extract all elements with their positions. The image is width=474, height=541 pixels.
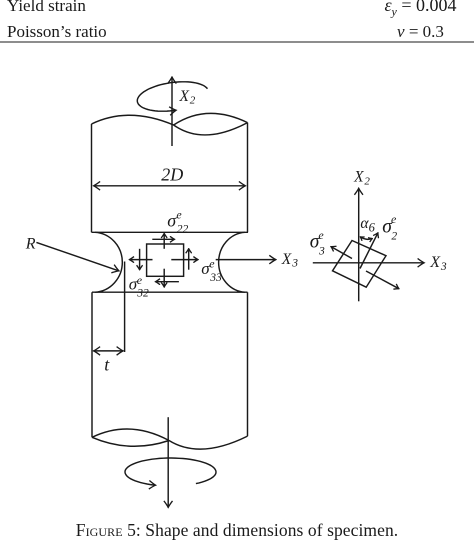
svg-text:2: 2 bbox=[364, 175, 370, 187]
R leader arrow bbox=[36, 242, 119, 271]
top break wave main bbox=[92, 115, 248, 135]
svg-text:2: 2 bbox=[391, 230, 397, 242]
table row 2 value bbox=[345, 22, 474, 42]
svg-text:e: e bbox=[176, 207, 182, 221]
svg-text:X: X bbox=[281, 251, 292, 268]
bottom break wave main bbox=[92, 429, 248, 449]
torsion loop bottom bbox=[125, 458, 216, 485]
svg-text:X: X bbox=[179, 88, 190, 105]
sigma3 principal arrow bbox=[331, 247, 352, 259]
notch arc left bbox=[95, 232, 122, 292]
X3 axis main bbox=[216, 259, 276, 261]
upper cylinder right edge bbox=[247, 123, 249, 233]
inset rotated square bbox=[333, 241, 387, 288]
svg-text:33: 33 bbox=[209, 272, 222, 284]
right shear arrow up bbox=[188, 249, 190, 270]
svg-text:e: e bbox=[391, 212, 397, 226]
svg-text:2: 2 bbox=[190, 95, 196, 107]
t dimension arrow bbox=[94, 350, 124, 352]
sigma33 right arrow bbox=[171, 259, 198, 261]
table bottom rule bbox=[0, 41, 474, 43]
X2 axis arrow (top) bbox=[171, 77, 173, 146]
table row 1 value bbox=[345, 0, 474, 20]
upper cylinder left edge bbox=[91, 124, 93, 232]
svg-text:3: 3 bbox=[318, 245, 325, 257]
top shear arrow right bbox=[152, 238, 174, 240]
alpha6 angle arc bbox=[360, 237, 372, 239]
stress element square bbox=[147, 244, 184, 276]
sigma2 principal arrow bbox=[360, 233, 378, 269]
upper shoulder line bbox=[92, 231, 249, 233]
sigma22 up arrow bbox=[163, 233, 165, 248]
svg-text:t: t bbox=[104, 355, 110, 375]
left shear arrow down bbox=[139, 249, 141, 270]
lower cylinder right edge bbox=[247, 292, 249, 436]
left arrow out bbox=[129, 259, 152, 261]
svg-text:3: 3 bbox=[440, 261, 447, 273]
bottom shear arrow left bbox=[155, 281, 179, 283]
svg-text:R: R bbox=[25, 236, 36, 253]
2D dimension arrow bbox=[94, 185, 246, 187]
figure caption bbox=[0, 520, 474, 541]
svg-text:X: X bbox=[353, 169, 364, 186]
lower cylinder left edge bbox=[91, 292, 93, 437]
svg-text:X: X bbox=[429, 254, 441, 271]
inset X3 axis bbox=[313, 262, 424, 264]
svg-text:e: e bbox=[137, 273, 143, 287]
inset X2 axis bbox=[358, 188, 360, 301]
t reference line bbox=[124, 262, 126, 353]
torsion loop top bbox=[137, 82, 207, 111]
bottom axis arrow bbox=[167, 417, 169, 507]
svg-text:e: e bbox=[209, 256, 215, 270]
svg-text:6: 6 bbox=[369, 220, 376, 234]
top break wave lens bbox=[174, 113, 248, 125]
table row 1 label bbox=[7, 0, 86, 16]
table row 2 label bbox=[7, 22, 107, 42]
sigma3 opposite arrow bbox=[366, 271, 399, 289]
svg-text:22: 22 bbox=[177, 224, 189, 236]
bottom down arrow bbox=[163, 269, 165, 287]
notch arc right bbox=[219, 232, 245, 292]
lower shoulder line bbox=[92, 291, 248, 293]
svg-text:3: 3 bbox=[291, 258, 298, 270]
svg-text:2D: 2D bbox=[161, 165, 183, 185]
svg-text:32: 32 bbox=[136, 287, 149, 299]
svg-text:e: e bbox=[318, 228, 324, 242]
bottom break wave lens bbox=[92, 437, 169, 446]
